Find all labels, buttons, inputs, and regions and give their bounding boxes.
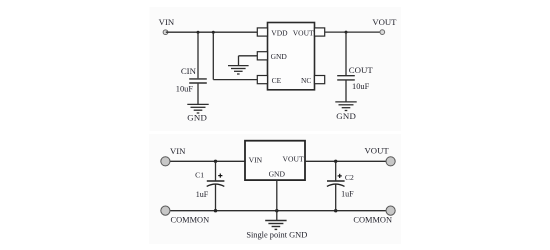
value label 10uF (COUT) [352,82,370,91]
wire CIN to ground [197,84,199,105]
ground below CIN [187,104,208,113]
pin label VIN (U2) [249,155,263,164]
wire C1 branch top [215,161,217,180]
svg-text:GND: GND [187,112,207,122]
ground single point [265,221,286,230]
wire COUT branch [345,32,347,75]
pin label CE [272,76,282,85]
wire VIN to VDD pin [166,31,258,33]
ground at GND pin [228,66,249,74]
junction C1 top [214,160,217,163]
terminal COMMON left [161,206,170,215]
svg-text:NC: NC [301,76,311,85]
capacitor CIN [189,79,207,83]
value label CIN [181,66,197,76]
capacitor C2 [327,174,345,187]
pin label VDD [271,28,288,37]
node VOUT label (top) [372,17,397,27]
wire C2 branch top [335,161,337,180]
capacitor COUT [337,76,355,80]
svg-text:CIN: CIN [181,66,197,76]
pin label VOUT [293,28,314,37]
terminal VOUT (bottom) [386,157,395,166]
pin label GND (U2) [269,170,286,179]
value label 1uF (C1) [196,190,209,199]
wire COUT to ground [345,81,347,102]
regulator U2 body [245,141,305,180]
svg-text:COMMON: COMMON [353,216,392,225]
junction GND rail [275,209,278,212]
svg-text:10uF: 10uF [176,85,194,94]
op IC U1 body [268,23,315,90]
ref label C2 [345,173,354,182]
terminal COMMON right [386,206,395,215]
wire VOUT pin to terminal [325,31,381,33]
value label 10uF (CIN) [176,85,194,94]
svg-text:VIN: VIN [159,17,175,27]
pin box CE [257,76,267,84]
ground below COUT [335,102,356,111]
wire C2 branch bottom [335,184,337,210]
svg-text:C1: C1 [195,171,204,180]
wire top rail left [170,160,245,162]
svg-text:VDD: VDD [271,28,288,37]
node VIN label (bottom) [170,146,186,156]
terminal VIN (top) [163,30,168,35]
svg-text:10uF: 10uF [352,82,370,91]
svg-text:VOUT: VOUT [293,28,314,37]
ref label C1 [195,171,204,180]
junction C2 bottom [334,209,337,212]
value label 1uF (C2) [341,190,354,199]
terminal VIN (bottom) [161,157,170,166]
pin box NC [315,76,325,84]
wire GND pin vertical [238,56,240,65]
wire top rail right [305,160,386,162]
node VOUT label (bottom) [365,145,390,155]
pin label VOUT (U2) [283,154,304,163]
svg-text:1uF: 1uF [341,190,354,199]
pin box VOUT [315,28,325,36]
junction C1 bottom [214,209,217,212]
net label GND (below COUT) [336,111,356,121]
wire bottom rail [170,210,386,212]
svg-text:VOUT: VOUT [365,145,390,155]
svg-text:GND: GND [269,170,286,179]
pin box VDD [257,28,267,36]
pin label GND [271,52,288,61]
net label GND (below CIN) [187,112,207,122]
terminal VOUT (top) [380,30,385,35]
svg-text:Single point GND: Single point GND [246,230,307,239]
net label Single point GND [246,230,307,239]
svg-text:VOUT: VOUT [283,154,304,163]
node COMMON label right [353,216,392,225]
pin label NC [301,76,311,85]
wire C1 branch bottom [215,184,217,210]
wire CE branch horizontal [213,79,257,81]
svg-text:C2: C2 [345,173,354,182]
svg-text:1uF: 1uF [196,190,209,199]
wire GND pin horizontal [239,55,258,57]
value label COUT [349,65,374,75]
svg-text:GND: GND [336,111,356,121]
capacitor C1 [207,174,225,187]
svg-text:CE: CE [272,76,282,85]
node VIN label (top) [159,17,175,27]
svg-text:COUT: COUT [349,65,374,75]
svg-text:VOUT: VOUT [372,17,397,27]
svg-text:COMMON: COMMON [171,216,210,225]
svg-text:VIN: VIN [249,155,263,164]
wire CE branch vertical [212,32,214,79]
junction CIN node [197,31,200,34]
bottom schematic image background [149,134,401,244]
svg-text:VIN: VIN [170,146,186,156]
junction COUT node [345,31,348,34]
junction CE node [212,31,215,34]
wire GND pin down [276,180,278,221]
node COMMON label left [171,216,210,225]
svg-text:GND: GND [271,52,288,61]
pin box GND [257,52,267,60]
wire CIN branch [197,32,199,78]
junction C2 top [334,160,337,163]
top schematic image background [150,7,402,131]
